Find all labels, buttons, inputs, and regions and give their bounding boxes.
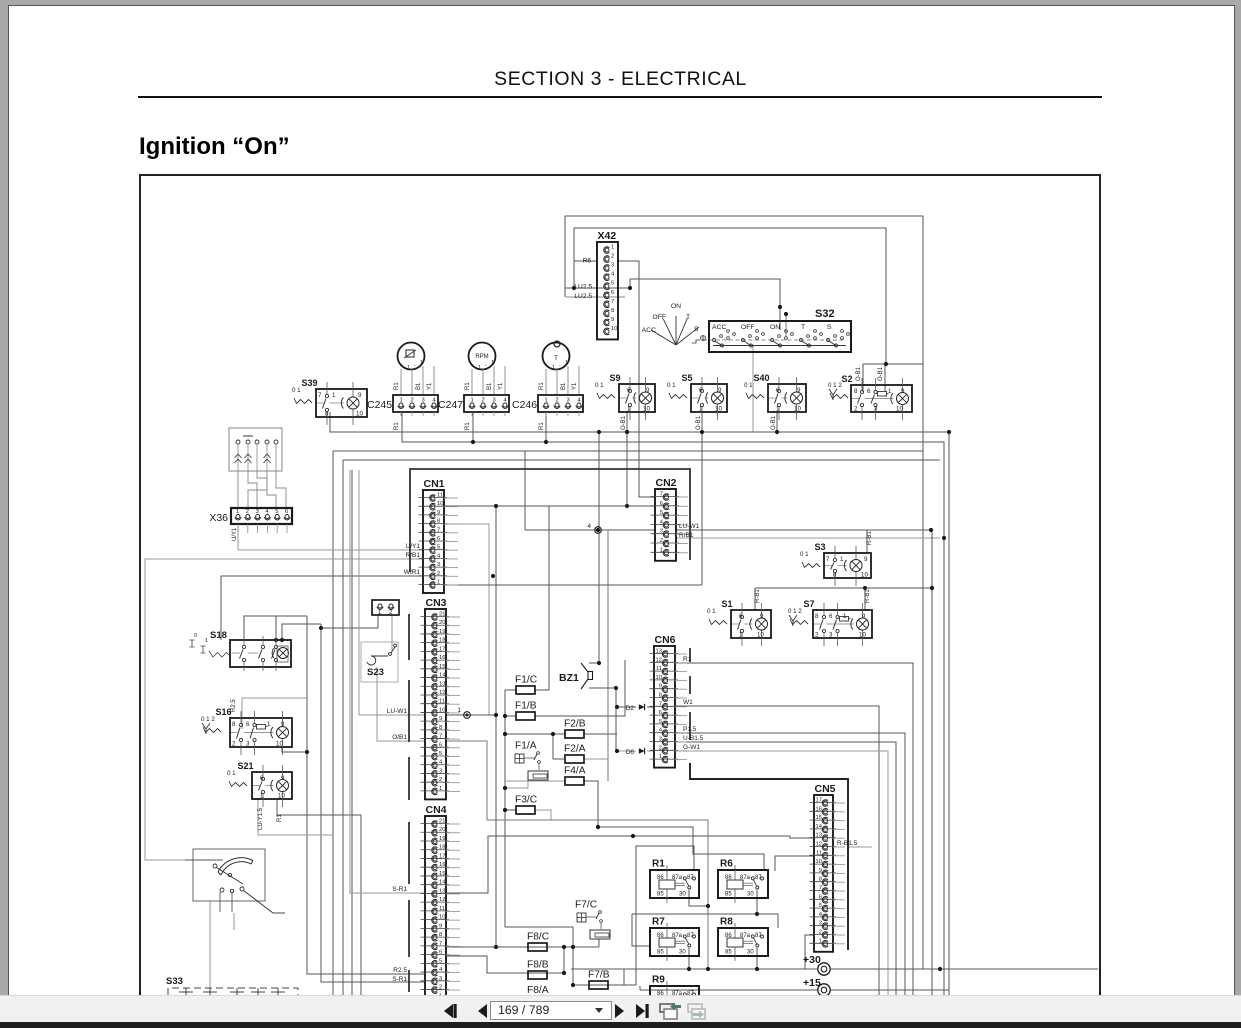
junction node at 599,663 [597, 661, 601, 665]
switch S18 [230, 640, 291, 667]
junction node at 505,810 [503, 808, 507, 812]
wire F8/B row [446, 956, 564, 973]
connector X42 [597, 242, 618, 339]
wire S7 up [864, 588, 866, 610]
toolbar prev-view icon [660, 1003, 681, 1020]
junction node at 564,947 [562, 945, 566, 949]
junction node at 944,538 [942, 536, 946, 540]
toolbar page selector [490, 1001, 612, 1020]
junction node at 940,969 [938, 967, 942, 971]
relay R7 [650, 928, 699, 956]
toolbar nav prev icon [478, 1004, 487, 1018]
wire D col [615, 688, 617, 751]
junction node at 599,432 [597, 430, 601, 434]
wire bus R1 row2 [402, 412, 944, 996]
switch S40 [768, 384, 806, 412]
connector CN2 [655, 489, 676, 561]
junction node at 573,985 [571, 983, 575, 987]
wire CN2-3 left up [524, 451, 526, 530]
connector CN6 [654, 646, 675, 768]
wire D2 to CN6-7 [647, 706, 654, 708]
wire S18 c2 up [275, 616, 277, 640]
connector CN3 [425, 609, 446, 799]
junction node at 617,751 [615, 749, 619, 753]
stubs CN5 [833, 802, 845, 804]
wire R-B1.5 stub [848, 846, 872, 848]
toolbar next-view icon (disabled) [688, 1004, 705, 1019]
wire X42 pin2 R6 left [574, 260, 597, 262]
switch S1 [731, 610, 771, 638]
junction node at 321,628 [319, 626, 323, 630]
junction node at 573,947 [571, 945, 575, 949]
wire O/B1 right [446, 741, 708, 969]
connector C247 [464, 395, 509, 412]
node 1 [464, 712, 471, 719]
wire mid vertical d [360, 815, 362, 996]
wire S23 pin2 down [391, 615, 393, 651]
switch S16 [230, 718, 292, 747]
switch S39 [316, 389, 367, 417]
wire S1 up [754, 588, 756, 610]
wire F3/C right [535, 810, 551, 820]
junction node at 757,914 [755, 912, 759, 916]
wire S3 up [866, 530, 868, 553]
wire X42 pin6 left LU2.5 [566, 296, 625, 298]
wire S16 R2.5 up [242, 698, 307, 729]
schematic frame [139, 174, 1101, 1023]
connector C246 [538, 395, 583, 412]
junction node at 630,288 [628, 286, 632, 290]
junction node at 780,307 [778, 305, 782, 309]
wire ignition down2 [233, 913, 235, 930]
wire CN4-13 right [446, 836, 814, 893]
wire S2 pin1 up [884, 364, 886, 391]
wire F1 column [505, 690, 573, 927]
wire plus15 right [831, 989, 949, 991]
connector CN5 [814, 795, 833, 952]
junction node at 689,969 [687, 967, 691, 971]
wire loop CN1 A [333, 450, 923, 452]
junction node at 627,432 [625, 430, 629, 434]
wire BZ1 top [589, 662, 599, 664]
wire X42 pin2 R6 right [618, 261, 655, 497]
wire S1 S7 R-B1 [755, 587, 932, 589]
junction node at 496,506 [494, 504, 498, 508]
junction node at 886,364 [884, 362, 888, 366]
wire F1/C right [535, 506, 549, 690]
wire S16 pin10 right [282, 747, 307, 752]
wire CN4-7 F8/C [446, 946, 599, 948]
wire F2/A right [584, 758, 608, 760]
wire F4/A right [584, 781, 598, 827]
wire F1/C [505, 689, 516, 691]
junction node at 702,432 [700, 430, 704, 434]
wire F1/B [505, 715, 516, 717]
wire F3/C row [505, 809, 516, 811]
wire F2 col [553, 734, 565, 759]
junction node at 493,576 [491, 574, 495, 578]
wire CN1-8 down [444, 524, 489, 715]
wire CN1-1 right [444, 584, 702, 586]
wire CN2-3 LU-W1 right [676, 529, 931, 531]
wire F2/B row [505, 733, 565, 735]
toolbar nav first-page icon [444, 1004, 457, 1018]
wire R-B1 vertical [931, 530, 933, 996]
wire F8C col 573 [572, 927, 574, 985]
wire F7B up [636, 846, 694, 985]
wire R7 R8 top [632, 914, 778, 928]
bracket CN3 [408, 614, 410, 660]
wire plus15 row [640, 989, 818, 991]
wire R8 30 down [756, 948, 758, 969]
connector S23 [372, 600, 399, 615]
junction node at 627,506 [625, 504, 629, 508]
wire S21 pin1 down [258, 799, 333, 835]
wire loop CN1 B2 [343, 459, 940, 461]
wire D2 row [616, 706, 636, 708]
buzzer BZ1 [581, 663, 588, 689]
wire gauge leads [400, 369, 402, 395]
wire S-R1 CN4-13 [350, 470, 425, 893]
wire plus30 left [686, 968, 818, 970]
junction node at 757,969 [755, 967, 759, 971]
junction node at 949,432 [947, 430, 951, 434]
wire top loop inner [574, 228, 886, 364]
junction node at 496,715 [494, 713, 498, 717]
wire W/R1 CN1-2 [221, 576, 423, 640]
wire CN6-7 W1 [675, 706, 879, 996]
wire S23 to CN3-7 O/B1 [377, 667, 425, 741]
wire S2 pin8 up [862, 364, 864, 392]
switch S2 [851, 385, 912, 412]
junction node at 553,734 [551, 732, 555, 736]
junction node at 282,640 [280, 638, 284, 642]
junction node at 473,442 [471, 440, 475, 444]
wire CN1-10 node down [495, 506, 497, 947]
junction node at 777,432 [775, 430, 779, 434]
wire F7/B row [573, 984, 636, 986]
junction node at 786,314 [784, 312, 788, 316]
wire CN1-10 to CN2-6 [444, 505, 655, 507]
switch S23 [361, 642, 398, 682]
wire loop CN1 A2 [332, 451, 334, 996]
switch S5 [691, 384, 727, 412]
ignition key switch [193, 849, 265, 901]
wire CN5-3 in [571, 935, 814, 969]
gauge fuel [398, 343, 425, 370]
junction node at 865,588 [863, 586, 867, 590]
bracket CN1 CN2 [410, 469, 690, 572]
wires X36 to block [237, 471, 239, 508]
junction node at 708,906 [706, 904, 710, 908]
wire R7 30 down [688, 948, 690, 969]
wire mid vertical a [307, 616, 425, 974]
wire LU-W1 to CN3-10 [359, 714, 425, 716]
relay R6 [718, 870, 768, 898]
junction node at 546,442 [544, 440, 548, 444]
wire mid vertical b [321, 624, 425, 982]
wire C247 pin1 down R1 [472, 412, 474, 442]
wire relay mid col [632, 914, 650, 946]
wire CN6-12 R1 [675, 663, 913, 996]
switch S3 [824, 553, 871, 578]
switch S9 [619, 384, 655, 412]
stubs CN3 [446, 616, 460, 618]
wire R6-87 up [775, 856, 814, 871]
stubs CN2 [676, 496, 688, 498]
junction node at 307,752 [305, 750, 309, 754]
switch S32 ignition switch assembly [709, 321, 851, 352]
wire F1/A coil down [505, 776, 528, 788]
connector CN4 [425, 816, 446, 1007]
wire F2/B right [584, 733, 617, 735]
header rule [138, 96, 1102, 98]
wire mid vertical c [351, 470, 353, 996]
wire CN3-10 right node [446, 714, 496, 716]
wire CN2-3 left [525, 529, 655, 531]
node 4 [595, 527, 602, 534]
wire S32 down left [752, 346, 754, 432]
wire S32 pin link [785, 314, 787, 337]
junction node at 931,530 [929, 528, 933, 532]
toolbar [0, 995, 1241, 1023]
wire S18 c1 up [244, 616, 307, 640]
wire S21 pin10 down [277, 799, 361, 815]
wire F7/B to plus30 [624, 969, 686, 985]
wire S9 down O-B1 [626, 412, 628, 506]
bracket CN6-CN5 link [690, 763, 848, 950]
switch S7 [813, 610, 872, 638]
junction node at 598,530 [596, 528, 600, 532]
stubs CN6 [675, 653, 687, 655]
wire F8B junction [563, 947, 565, 973]
wire CN2-2 R/B1 right [676, 537, 940, 539]
wire CN6-4 P1.5 [675, 733, 905, 996]
wire R9 top [639, 986, 641, 990]
wire BZ1 bottom [589, 687, 616, 689]
relay R8 [718, 928, 768, 956]
wire S5 down O-B1 [701, 412, 703, 432]
junction node at 598,827 [596, 825, 600, 829]
wire ignition feed [185, 859, 223, 861]
connector C245 [393, 395, 438, 412]
wire U/Y1 X36 to CN1-5 [238, 524, 423, 550]
rotary position fan [651, 330, 676, 345]
bottom dark bar [0, 1022, 1241, 1028]
wire S23 pin1 down [321, 615, 378, 628]
wire gauge leads [545, 369, 547, 395]
toolbar nav last-page icon [636, 1004, 649, 1018]
wire bus O-B1 [330, 412, 949, 996]
bracket CN4 [408, 822, 410, 884]
wire CN1-1 vert [701, 432, 703, 585]
wire S40 down O-B1 [776, 412, 778, 432]
wire CN6-3 U-B1.5 [675, 742, 896, 996]
connector block above X36 [229, 428, 282, 471]
wire to R6 coil [598, 827, 764, 871]
junction node at 633,836 [631, 834, 635, 838]
toolbar nav next icon [615, 1004, 624, 1018]
wire loop CN1 B [342, 460, 344, 996]
gauge RPM [469, 343, 496, 370]
junction node at 505,788 [503, 786, 507, 790]
wire mid vert 608 [607, 530, 609, 781]
wire F4/A row [505, 780, 565, 782]
bracket CN6 [689, 648, 691, 662]
wire D6 to CN6-2 [647, 750, 654, 752]
junction node at 616,688 [614, 686, 618, 690]
title: Ignition On [139, 133, 290, 161]
header: SECTION 3 - ELECTRICAL [0, 68, 1241, 91]
wire BZ1 vert [598, 432, 600, 663]
junction node at 574,288 [572, 286, 576, 290]
gauge temperature [543, 343, 570, 370]
junction node at 496,947 [494, 945, 498, 949]
wire R6 30 down [756, 890, 758, 914]
wire F7/C coil down [598, 939, 600, 947]
junction node at 932,588 [930, 586, 934, 590]
wire S18 c3 up [282, 624, 321, 640]
relay R9 [650, 986, 699, 1014]
wire R/B1 long [145, 559, 423, 860]
junction node at 617,707 [615, 705, 619, 709]
junction node at 276,640 [274, 638, 278, 642]
relay R1 [650, 870, 699, 898]
junction node at 564,973 [562, 971, 566, 975]
wire top loop outer [565, 216, 923, 969]
wire CN6-2 G-W1 [675, 751, 888, 996]
wire ignition down1 [209, 901, 211, 988]
wire R1-30 out [689, 890, 708, 906]
connector X36 [231, 508, 292, 524]
wire X42 pin5 to S32 [565, 279, 780, 330]
wire LU-W1 from vert [358, 470, 360, 715]
stubs CN4 [446, 823, 460, 825]
switch S21 [252, 772, 292, 799]
wire D6 row [616, 750, 636, 752]
wire plus30 row [831, 968, 1098, 970]
junction node at 505,716 [503, 714, 507, 718]
wire gauge leads [471, 369, 473, 395]
connector CN1 [423, 490, 444, 593]
junction node at 708,969 [706, 967, 710, 971]
wire F1/B right [535, 660, 625, 716]
stubs CN1 [444, 497, 458, 499]
wire C246 pin1 down R1 [545, 412, 547, 442]
wire S2 row [863, 363, 923, 365]
junction node at 505,734 [503, 732, 507, 736]
